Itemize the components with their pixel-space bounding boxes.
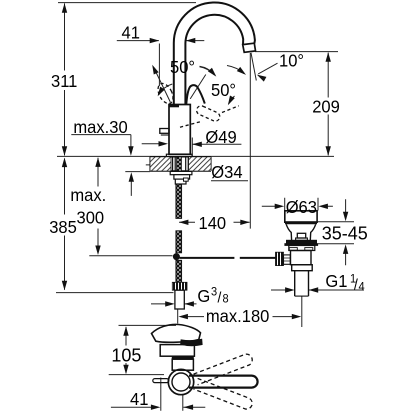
svg-text:4: 4: [359, 281, 366, 293]
svg-text:105: 105: [111, 346, 141, 366]
svg-text:8: 8: [223, 293, 229, 305]
svg-text:/: /: [218, 290, 222, 307]
svg-text:/: /: [354, 277, 358, 294]
svg-text:G: G: [197, 285, 210, 306]
svg-text:35-45: 35-45: [322, 223, 368, 243]
svg-text:Ø34: Ø34: [211, 161, 243, 182]
svg-text:311: 311: [51, 71, 77, 92]
svg-text:50°: 50°: [170, 56, 195, 77]
svg-text:3: 3: [211, 286, 217, 298]
svg-text:max.: max.: [70, 184, 106, 205]
svg-text:max.30: max.30: [73, 117, 127, 138]
svg-text:209: 209: [312, 96, 340, 117]
svg-text:G1: G1: [325, 270, 347, 291]
svg-text:Ø63: Ø63: [286, 196, 317, 217]
svg-text:Ø49: Ø49: [205, 126, 236, 147]
svg-text:385: 385: [49, 216, 77, 237]
svg-text:41: 41: [130, 388, 148, 409]
svg-text:140: 140: [199, 212, 227, 233]
svg-text:300: 300: [77, 207, 105, 228]
svg-text:50°: 50°: [211, 79, 236, 100]
svg-text:10°: 10°: [279, 50, 304, 71]
svg-text:41: 41: [122, 22, 140, 43]
svg-text:max.180: max.180: [206, 305, 269, 326]
